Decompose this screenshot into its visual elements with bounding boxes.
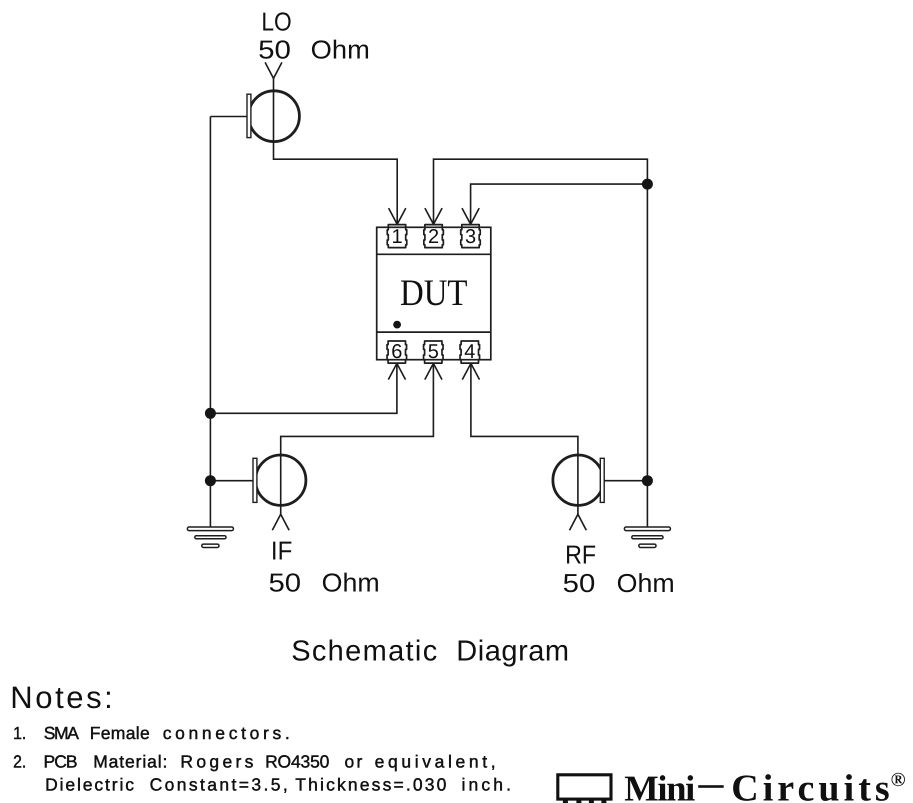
- svg-text:Mini: Mini: [624, 768, 695, 803]
- svg-text:2: 2: [428, 226, 439, 248]
- svg-text:50: 50: [258, 34, 291, 64]
- svg-text:Notes:: Notes:: [10, 680, 113, 715]
- svg-text:4: 4: [464, 341, 475, 363]
- svg-text:6: 6: [391, 341, 402, 363]
- svg-text:Schematic: Schematic: [291, 636, 437, 668]
- svg-text:5: 5: [428, 341, 439, 363]
- svg-text:Circuits: Circuits: [731, 768, 890, 803]
- svg-text:50: 50: [563, 568, 596, 598]
- svg-text:2.: 2.: [13, 751, 26, 771]
- svg-text:or: or: [345, 751, 363, 771]
- svg-text:DUT: DUT: [400, 273, 468, 314]
- svg-text:1.: 1.: [13, 723, 26, 743]
- svg-text:LO: LO: [261, 7, 291, 37]
- svg-text:50: 50: [269, 567, 302, 597]
- svg-text:®: ®: [891, 769, 906, 791]
- svg-text:Constant=3.5,: Constant=3.5,: [150, 774, 288, 794]
- svg-text:equivalent,: equivalent,: [375, 751, 496, 771]
- svg-text:1: 1: [391, 226, 402, 248]
- svg-text:Ohm: Ohm: [617, 568, 675, 598]
- svg-text:Ohm: Ohm: [322, 567, 380, 597]
- svg-text:PCB: PCB: [44, 751, 78, 771]
- svg-text:RF: RF: [565, 540, 596, 570]
- svg-text:Diagram: Diagram: [456, 636, 569, 668]
- svg-text:Female: Female: [90, 723, 150, 743]
- svg-text:Ohm: Ohm: [311, 34, 370, 64]
- svg-text:IF: IF: [271, 535, 292, 565]
- svg-text:3: 3: [465, 226, 476, 248]
- svg-text:SMA: SMA: [44, 723, 79, 743]
- svg-text:RO4350: RO4350: [265, 751, 330, 771]
- svg-text:Material:: Material:: [93, 751, 167, 771]
